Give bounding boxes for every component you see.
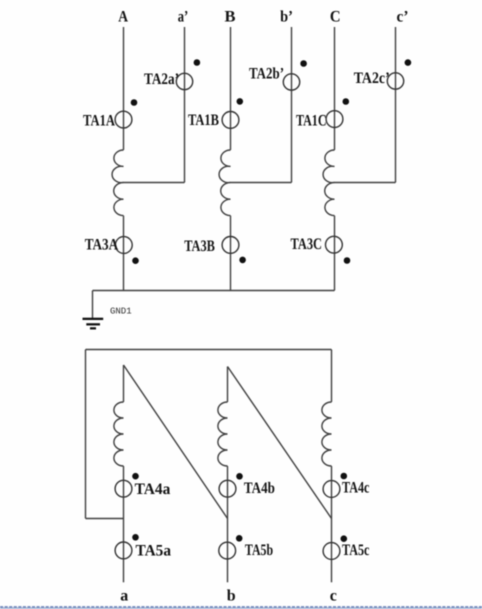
svg-text:TA3C: TA3C — [291, 236, 323, 253]
polarity dot TA4b — [236, 473, 243, 480]
polarity dot TA5a — [132, 534, 139, 541]
CT TA1B circle — [222, 112, 239, 129]
polarity dot TA4a — [132, 473, 139, 480]
wire phase C bottom — [334, 216, 336, 291]
svg-text:TA1C: TA1C — [296, 113, 327, 130]
wire tap B to b' — [231, 182, 292, 184]
wire delta left drop — [85, 350, 87, 519]
svg-text:b’: b’ — [280, 9, 293, 26]
wire phase B top — [230, 27, 232, 150]
wire phase B bottom — [230, 216, 232, 291]
wire tap C to c' — [335, 182, 396, 184]
polarity dot TA5c — [341, 535, 348, 542]
svg-text:TA1B: TA1B — [188, 112, 219, 129]
svg-text:b: b — [227, 588, 236, 605]
svg-text:TA3A: TA3A — [85, 236, 119, 253]
CT TA5c circle — [323, 543, 340, 560]
svg-text:TA2b’: TA2b’ — [249, 66, 284, 83]
svg-text:TA3B: TA3B — [184, 238, 215, 255]
wire ground drop — [92, 291, 94, 319]
svg-text:a’: a’ — [178, 9, 189, 26]
CT TA4b circle — [219, 480, 236, 497]
wire diagonal a-vertex to node b — [124, 365, 228, 519]
svg-text:TA1A: TA1A — [83, 113, 115, 130]
svg-text:GND1: GND1 — [110, 307, 132, 317]
svg-text:TA2a’: TA2a’ — [144, 71, 179, 88]
decorative blue separator — [0, 607, 482, 608]
svg-text:TA2c’: TA2c’ — [354, 70, 390, 87]
polarity dot TA3C — [344, 257, 351, 264]
winding L-C (primary, tapped) — [323, 150, 334, 216]
CT TA4c circle — [323, 481, 340, 498]
svg-text:TA4a: TA4a — [135, 481, 171, 498]
svg-text:TA5b: TA5b — [245, 542, 273, 559]
CT TA5a circle — [115, 542, 132, 559]
CT TA2b' circle — [283, 74, 299, 90]
CT TA1A circle — [115, 111, 132, 128]
svg-text:TA5a: TA5a — [136, 543, 172, 560]
polarity dot TA3A — [132, 257, 139, 264]
wire tap A to a' — [124, 182, 185, 184]
wire c' vertical — [395, 27, 397, 183]
polarity dot TA3B — [239, 257, 246, 264]
polarity dot TA2b' — [300, 60, 307, 67]
winding L-c (secondary) — [322, 402, 332, 466]
svg-text:a: a — [120, 588, 128, 605]
svg-text:TA4b: TA4b — [244, 480, 275, 497]
winding L-B (primary, tapped) — [219, 150, 230, 216]
polarity dot TA2c' — [405, 59, 412, 66]
svg-text:C: C — [330, 9, 341, 26]
wire delta left jumper to node a — [86, 518, 124, 520]
polarity dot TA2a' — [194, 59, 201, 66]
CT TA4a circle — [115, 480, 132, 497]
polarity dot TA1B — [237, 98, 244, 105]
wire delta top — [86, 349, 332, 351]
polarity dot TA1A — [131, 99, 138, 106]
wire phase c lower — [331, 466, 333, 582]
CT TA3C circle — [326, 236, 343, 253]
wire phase C top — [334, 27, 336, 150]
wire phase a lower — [123, 466, 125, 582]
wire neutral bus — [93, 290, 335, 292]
CT TA3B circle — [222, 237, 239, 254]
winding L-a (secondary) — [114, 402, 124, 466]
ground GND1 symbol — [83, 318, 104, 330]
svg-text:A: A — [118, 9, 128, 26]
winding L-A (primary, tapped) — [112, 150, 123, 216]
CT TA3A circle — [115, 237, 132, 254]
wire a' vertical — [184, 27, 186, 183]
polarity dot TA4c — [341, 473, 348, 480]
winding L-b (secondary) — [218, 402, 228, 466]
CT TA5b circle — [219, 542, 236, 559]
svg-text:c: c — [330, 588, 337, 605]
wire vertex a to winding a — [123, 365, 125, 402]
wire phase A top — [123, 27, 125, 150]
polarity dot TA5b — [236, 535, 243, 542]
wire delta right drop to winding c — [331, 350, 333, 403]
CT TA2a' circle — [176, 73, 192, 89]
wire b' vertical — [291, 27, 293, 183]
wire phase b lower — [227, 466, 229, 582]
svg-text:TA5c: TA5c — [342, 542, 369, 559]
wire phase A bottom — [123, 216, 125, 291]
svg-text:TA4c: TA4c — [342, 479, 369, 496]
polarity dot TA1C — [343, 98, 350, 105]
CT TA1C circle — [326, 111, 343, 128]
CT TA2c' circle — [387, 73, 403, 89]
svg-text:B: B — [225, 9, 236, 26]
wire vertex b to winding b — [227, 367, 229, 403]
svg-text:c’: c’ — [397, 9, 409, 26]
wire diagonal b-vertex to node c — [228, 367, 332, 519]
